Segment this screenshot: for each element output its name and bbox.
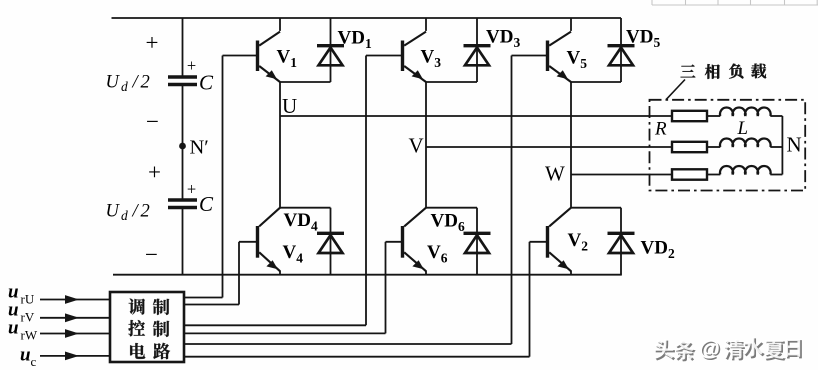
svg-text:N′: N′ — [190, 137, 209, 159]
diode VD4 — [317, 208, 344, 275]
watermark 头条@清水夏日 — [654, 337, 802, 363]
svg-text:N: N — [787, 133, 802, 157]
svg-text:u: u — [8, 318, 19, 339]
svg-text:Ud/2: Ud/2 — [106, 202, 150, 224]
svg-text:u: u — [20, 345, 31, 366]
svg-text:+: + — [148, 160, 161, 185]
diode VD6 — [464, 208, 491, 275]
wire: gate drive to V3 — [184, 324, 366, 326]
wire: base of V2 — [530, 242, 548, 357]
wire: R to L phase V — [707, 146, 720, 148]
inductor L phase U — [720, 107, 771, 116]
svg-text:V1: V1 — [277, 47, 298, 71]
three-phase load box — [650, 100, 806, 191]
wire: phase W line — [571, 174, 672, 176]
svg-text:C: C — [199, 192, 214, 216]
wire: emitter junction of V5 — [571, 82, 621, 175]
capacitor C (upper) — [168, 77, 197, 85]
diode VD1 — [317, 18, 344, 82]
svg-text:U: U — [282, 94, 297, 118]
wire: base of V3 — [366, 56, 403, 326]
svg-text:VD4: VD4 — [284, 210, 318, 234]
svg-text:V3: V3 — [421, 47, 442, 71]
resistor R phase U — [672, 111, 707, 121]
wire: base of V5 — [512, 56, 548, 345]
svg-text:−: − — [145, 242, 158, 267]
input u_rW arrow — [40, 329, 110, 338]
diode VD5 — [608, 18, 635, 82]
svg-text:+: + — [146, 30, 159, 55]
svg-text:VD1: VD1 — [338, 28, 372, 52]
wire: gate drive to V1 — [184, 297, 223, 299]
svg-text:L: L — [737, 118, 749, 139]
svg-text:C: C — [199, 71, 214, 95]
wire: collector junction of V6 — [426, 147, 477, 208]
svg-text:R: R — [654, 119, 667, 140]
svg-text:c: c — [31, 354, 37, 369]
transistor V2 — [548, 208, 572, 276]
pointer line to load box — [666, 80, 685, 100]
wire: base of V1 — [223, 56, 258, 298]
svg-text:W: W — [545, 162, 565, 186]
wire: emitter junction of V1 — [280, 82, 331, 116]
svg-text:@: @ — [699, 337, 720, 361]
svg-text:V6: V6 — [427, 242, 448, 266]
wire: base of V6 — [386, 242, 403, 334]
wire: R to L phase W — [707, 174, 720, 176]
wire: collector junction of V2 — [571, 175, 621, 208]
wire: base of V4 — [239, 242, 258, 305]
inductor L phase V — [720, 138, 771, 147]
wire: gate drive to V6 — [184, 332, 386, 334]
input u_rU arrow — [40, 295, 110, 304]
resistor R phase V — [672, 142, 707, 152]
svg-text:+: + — [187, 56, 196, 75]
svg-text:Ud/2: Ud/2 — [106, 73, 150, 95]
capacitor C (lower) — [168, 200, 197, 208]
cropped table remnant (top-right) — [652, 0, 818, 5]
wire: neutral bus — [781, 116, 783, 175]
svg-text:VD3: VD3 — [486, 27, 520, 51]
svg-text:rW: rW — [21, 328, 38, 343]
control box 调制控制电路 — [110, 292, 184, 362]
svg-text:VD2: VD2 — [641, 238, 675, 262]
wire: L to N phase V — [770, 146, 782, 148]
transistor V4 — [258, 208, 281, 276]
transistor V6 — [403, 208, 427, 276]
wire: R to L phase U — [707, 115, 720, 117]
wire: emitter junction of V3 — [426, 82, 477, 147]
transistor V3 — [403, 18, 427, 82]
resistor R phase W — [672, 169, 707, 179]
input u_rV arrow — [40, 313, 110, 322]
label 控制 — [128, 320, 145, 336]
diode VD3 — [464, 18, 491, 82]
wire: capacitor leg upper — [182, 18, 184, 76]
wire: L to N phase W — [770, 174, 782, 176]
label 电路 — [130, 343, 145, 359]
label 调制 — [129, 298, 145, 314]
input u_c arrow — [40, 352, 110, 361]
svg-text:VD5: VD5 — [626, 27, 660, 51]
wire: between C1 and N' — [182, 86, 184, 146]
wire: -DC bottom bus — [113, 274, 622, 276]
svg-text:V: V — [409, 134, 424, 158]
svg-text:V5: V5 — [567, 48, 588, 72]
svg-text:VD6: VD6 — [431, 211, 465, 235]
svg-text:rV: rV — [21, 310, 35, 325]
svg-text:−: − — [146, 109, 159, 134]
wire: gate drive to V5 — [184, 343, 512, 345]
wire: gate drive to V4 — [184, 304, 239, 306]
svg-text:+: + — [187, 180, 196, 199]
wire: collector junction of V4 — [280, 116, 331, 208]
wire: gate drive to V2 — [184, 356, 530, 358]
svg-text:V4: V4 — [283, 242, 304, 266]
transistor V5 — [548, 18, 572, 82]
diode VD2 — [608, 208, 635, 275]
transistor V1 — [258, 18, 281, 82]
label 三相负载 — [681, 65, 696, 78]
wire: between N' and C2 — [182, 146, 184, 199]
inductor L phase W — [720, 166, 771, 175]
wire: +DC top bus — [112, 17, 622, 19]
node N' — [179, 143, 186, 150]
svg-text:V2: V2 — [568, 230, 589, 254]
svg-text:rU: rU — [21, 292, 35, 307]
wire: L to N phase U — [770, 115, 782, 117]
wire: capacitor leg lower — [182, 209, 184, 275]
wire: phase U line — [280, 115, 672, 117]
wire: phase V line — [426, 146, 672, 148]
